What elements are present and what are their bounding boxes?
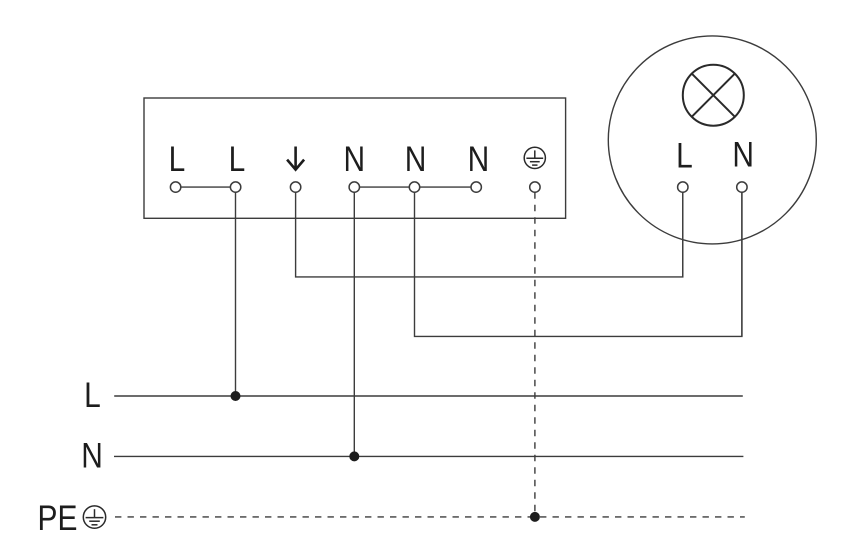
svg-text:N: N: [343, 139, 365, 179]
svg-text:N: N: [732, 134, 754, 174]
svg-text:PE: PE: [38, 498, 78, 538]
svg-text:N: N: [405, 139, 427, 179]
svg-text:N: N: [468, 139, 490, 179]
svg-text:L: L: [229, 138, 246, 178]
svg-text:L: L: [676, 135, 693, 175]
svg-text:L: L: [169, 138, 186, 178]
svg-text:N: N: [81, 435, 103, 475]
svg-text:L: L: [84, 375, 101, 415]
